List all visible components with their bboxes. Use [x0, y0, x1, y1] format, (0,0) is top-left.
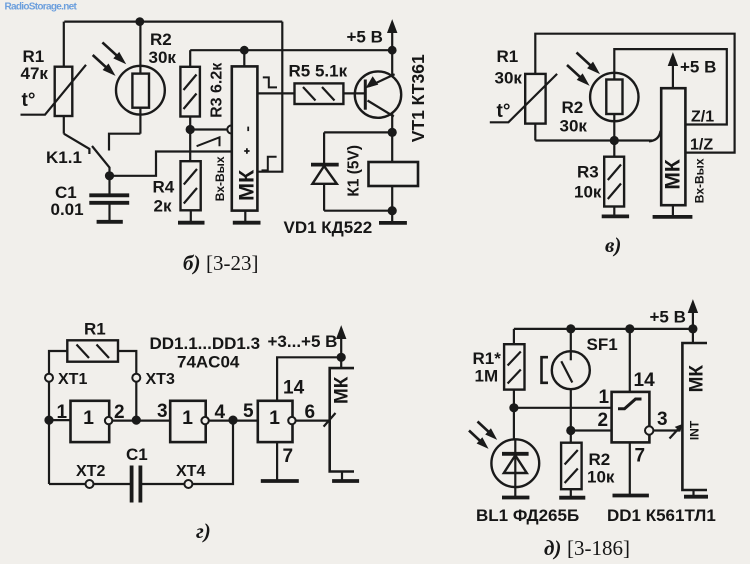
- svg-text:1: 1: [599, 387, 610, 408]
- inverter DD1.3: [258, 401, 296, 442]
- wire collector node to VD1 top: [324, 131, 392, 133]
- inverter DD1.2: [170, 401, 209, 442]
- node switch common: [105, 171, 114, 180]
- node relay bottom: [388, 206, 397, 215]
- resistor R4 2k: [181, 161, 201, 210]
- svg-text:R2: R2: [562, 98, 584, 117]
- node left rail pin1: [44, 416, 53, 425]
- wire switch to MK plus input: [110, 152, 232, 176]
- relay K1 (5V): [369, 162, 419, 211]
- resistor R5 5.1k: [295, 83, 366, 104]
- svg-text:+5 В: +5 В: [680, 58, 716, 77]
- wire pin7 to ground: [276, 442, 278, 480]
- svg-text:7: 7: [283, 446, 294, 467]
- light arrow 2: [93, 55, 114, 75]
- svg-text:R1: R1: [84, 320, 106, 339]
- wire R3 node to MK minus input: [190, 128, 227, 130]
- svg-text:VT1 КТ361: VT1 КТ361: [408, 54, 428, 142]
- node R2 bottom: [610, 136, 619, 145]
- ground under MK: [233, 211, 261, 223]
- svg-text:б): б): [183, 251, 200, 275]
- sawtooth symbol at minus input: [197, 137, 220, 146]
- svg-text:1/Z: 1/Z: [690, 137, 713, 154]
- light arrow 1 BL1: [478, 422, 496, 439]
- svg-text:R3: R3: [577, 163, 599, 182]
- resistor R3 10k: [604, 141, 624, 207]
- wire left rail to inverter 1: [49, 419, 71, 421]
- wire R3 node down to R4: [189, 130, 191, 162]
- node SF1 top: [566, 324, 575, 333]
- svg-text:14: 14: [634, 370, 656, 391]
- MK block (open right): [682, 343, 707, 490]
- wire R1 right to XT3 branch: [118, 351, 136, 420]
- svg-text:47к: 47к: [21, 64, 49, 83]
- wire bottom loop right: [140, 420, 233, 484]
- wire bottom loop left: [49, 483, 132, 485]
- svg-text:BL1 ФД265Б: BL1 ФД265Б: [476, 506, 579, 525]
- wire inner loop R2 top to MK Z/1 pin: [614, 49, 727, 124]
- wire pin 14: [629, 329, 631, 392]
- svg-text:ХТ1: ХТ1: [58, 371, 87, 388]
- wire rail drop to MK I/O pin: [257, 22, 282, 172]
- node SF1 bottom: [566, 426, 575, 435]
- svg-text:+5 В: +5 В: [347, 28, 383, 47]
- svg-text:+5 В: +5 В: [650, 308, 686, 327]
- svg-text:[3-23]: [3-23]: [206, 251, 258, 275]
- svg-text:Вх-Вых: Вх-Вых: [213, 156, 227, 201]
- ground under pin 7: [613, 494, 649, 498]
- svg-text:МК: МК: [662, 159, 685, 189]
- svg-text:3: 3: [657, 409, 668, 430]
- terminal XT3: [132, 374, 140, 382]
- node XT3 join: [132, 416, 141, 425]
- svg-text:в): в): [605, 233, 621, 257]
- svg-text:Z/1: Z/1: [691, 109, 714, 126]
- light arrow 1: [102, 42, 124, 63]
- falling edge symbol at MK out1: [263, 77, 277, 87]
- terminal XT1: [45, 374, 53, 382]
- node +5V rail: [388, 46, 397, 55]
- +5V supply arrow: [388, 21, 397, 51]
- wire MK out1 to R5: [257, 92, 294, 94]
- ground under C1: [97, 220, 123, 224]
- svg-text:RadioStorage.net: RadioStorage.net: [5, 2, 78, 13]
- svg-text:14: 14: [283, 378, 305, 399]
- diode VD1 KD522: [311, 132, 339, 210]
- wire pin14 to supply: [277, 357, 341, 401]
- wire inverter3 out to MK: [296, 420, 330, 422]
- svg-text:д): д): [544, 536, 561, 560]
- svg-text:3: 3: [157, 401, 168, 422]
- transistor VT1 KT361: [355, 50, 401, 132]
- wire outer loop R1 top to MK 1/Z pin: [535, 34, 734, 153]
- wire mid rail R3 top to +5V node: [190, 49, 392, 51]
- svg-text:t°: t°: [497, 101, 511, 122]
- ground under relay: [379, 211, 407, 223]
- svg-text:SF1: SF1: [587, 335, 618, 354]
- node collector: [388, 128, 397, 137]
- wire to DD1 pin 1: [514, 407, 612, 409]
- switch SF1: [552, 329, 590, 431]
- resistor R1 30k thermistor: [490, 74, 557, 141]
- rising edge symbol at MK IO pin: [262, 157, 277, 171]
- +5V supply arrow from MK top: [668, 54, 677, 89]
- ground under R2: [559, 496, 585, 500]
- svg-text:1: 1: [57, 402, 68, 423]
- label plus marker: [244, 148, 249, 153]
- node R3 bottom: [186, 125, 195, 134]
- node R1* bottom: [509, 403, 518, 412]
- MK block: [661, 88, 685, 205]
- pin open circle MK minus input: [227, 125, 235, 133]
- svg-text:г): г): [196, 519, 211, 543]
- svg-text:R2: R2: [589, 450, 611, 469]
- node junction R2 top: [135, 17, 144, 26]
- svg-text:5: 5: [243, 401, 254, 422]
- svg-text:DD1.1...DD1.3: DD1.1...DD1.3: [150, 334, 261, 353]
- resistor R1 47k thermistor: [21, 22, 87, 134]
- switch K1.1 contact from R2: [109, 134, 140, 151]
- supply arrow to MK: [337, 327, 346, 369]
- resistor R2 10k: [561, 431, 582, 497]
- svg-text:30к: 30к: [495, 69, 523, 88]
- svg-text:R2: R2: [150, 30, 172, 49]
- svg-text:1: 1: [83, 407, 94, 429]
- svg-text:30к: 30к: [149, 48, 177, 67]
- node C1 branch: [228, 416, 237, 425]
- ground under R4: [178, 210, 205, 222]
- svg-text:МК: МК: [687, 365, 708, 393]
- svg-text:ХТ4: ХТ4: [176, 463, 205, 480]
- ground under BL1: [502, 496, 529, 500]
- svg-text:Вх-Вых: Вх-Вых: [693, 158, 707, 203]
- svg-text:10к: 10к: [587, 468, 615, 487]
- MK block: [232, 50, 258, 210]
- light arrow 2 BL1: [469, 431, 487, 448]
- ground under pin7: [261, 479, 299, 483]
- ground under MK: [653, 205, 693, 217]
- terminal XT4: [184, 480, 192, 488]
- resistor R1* 1M: [504, 329, 524, 408]
- svg-text:30к: 30к: [560, 117, 588, 136]
- svg-text:ХТ3: ХТ3: [146, 371, 175, 388]
- svg-text:t°: t°: [22, 90, 36, 111]
- svg-text:ХТ2: ХТ2: [76, 463, 105, 480]
- +5V supply arrow: [688, 301, 697, 344]
- svg-text:VD1 КД522: VD1 КД522: [284, 218, 373, 237]
- IC DD1 K561TL1: [612, 392, 654, 443]
- capacitor C1: [132, 466, 141, 503]
- node +5V: [688, 324, 697, 333]
- wire pin 7: [629, 442, 631, 494]
- svg-text:1М: 1М: [475, 367, 499, 386]
- wire to DD1 pin 2: [571, 429, 612, 431]
- wire pin 3 to MK: [654, 429, 680, 431]
- svg-text:R1: R1: [497, 47, 519, 66]
- photoresistor R2 30k: [116, 22, 165, 134]
- svg-text:МК: МК: [235, 169, 259, 201]
- svg-text:INT: INT: [688, 420, 702, 440]
- light arrow 1: [577, 53, 599, 73]
- switch K1.1 arm: [92, 146, 110, 176]
- svg-text:К1 (5V): К1 (5V): [346, 145, 363, 197]
- node supply: [337, 353, 346, 362]
- wire R1 left to left rail: [49, 351, 67, 484]
- svg-text:74AC04: 74AC04: [177, 353, 240, 372]
- svg-text:2к: 2к: [154, 197, 172, 216]
- svg-text:1: 1: [182, 407, 193, 429]
- svg-text:1: 1: [269, 407, 280, 429]
- photoresistor R2 30k: [590, 73, 638, 141]
- resistor R1: [67, 340, 118, 361]
- node pin14 top: [625, 324, 634, 333]
- terminal XT2: [86, 480, 94, 488]
- light arrow 2: [567, 65, 588, 85]
- capacitor C1 0.01: [89, 176, 129, 221]
- wire bottom rail R1 to MK analog input: [535, 139, 652, 141]
- ground under MK: [684, 490, 708, 497]
- svg-text:R5 5.1к: R5 5.1к: [289, 62, 348, 81]
- svg-text:DD1 К561ТЛ1: DD1 К561ТЛ1: [607, 506, 716, 525]
- resistor R3 6.2k: [180, 50, 200, 129]
- wire collector to relay: [391, 132, 393, 162]
- label minus marker: [247, 127, 249, 132]
- svg-text:10к: 10к: [574, 183, 602, 202]
- switch K1.1 contact from R1: [64, 134, 90, 154]
- wire VD1 bottom to relay bottom: [324, 210, 392, 212]
- svg-text:7: 7: [635, 446, 646, 467]
- slash at MK input: [324, 413, 336, 427]
- svg-text:R1*: R1*: [473, 349, 502, 368]
- wire inverter1 out to inverter2: [112, 420, 170, 422]
- wire inverter2 out to inverter3: [209, 420, 258, 422]
- svg-text:+3...+5 В: +3...+5 В: [268, 332, 338, 351]
- inverter DD1.1: [71, 401, 113, 442]
- slash arrow at MK INT input: [670, 425, 683, 439]
- bracket of SF1: [542, 357, 549, 383]
- svg-text:0.01: 0.01: [51, 200, 84, 219]
- wire top rail (R1/R2 tops to MK I/O drop): [64, 21, 282, 23]
- ground under R3: [602, 207, 629, 217]
- svg-text:R3 6.2к: R3 6.2к: [209, 62, 226, 118]
- svg-text:K1.1: K1.1: [46, 148, 82, 167]
- ground under MK: [332, 472, 359, 482]
- node mid rail MK top: [240, 46, 249, 55]
- svg-text:[3-186]: [3-186]: [567, 536, 630, 560]
- svg-text:2: 2: [598, 410, 609, 431]
- MK block (open right): [330, 368, 354, 471]
- svg-text:C1: C1: [126, 445, 148, 464]
- wire top rail: [514, 328, 693, 330]
- photodiode BL1 FD265B: [491, 408, 539, 497]
- svg-text:МК: МК: [332, 376, 353, 404]
- svg-text:R4: R4: [153, 178, 175, 197]
- hook symbol at MK analog input: [649, 131, 661, 142]
